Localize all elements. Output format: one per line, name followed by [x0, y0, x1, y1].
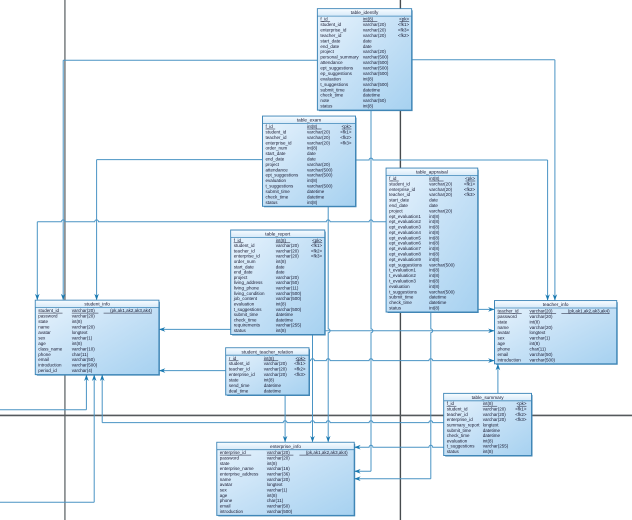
svg-text:email: email: [220, 504, 231, 509]
svg-text:datetime: datetime: [276, 317, 294, 322]
svg-text:phone: phone: [498, 347, 511, 352]
wire dark vertical line x=400 (clipped reference link): [399, 0, 401, 520]
svg-text:end_date: end_date: [234, 270, 253, 275]
svg-text:datetime: datetime: [429, 300, 447, 305]
arrowhead into student_info right from student_teacher_relation: [159, 368, 165, 373]
svg-text:varchar(20): varchar(20): [307, 129, 331, 134]
svg-text:t_evaluation2: t_evaluation2: [389, 273, 416, 278]
svg-text:end_date: end_date: [389, 203, 408, 208]
svg-text:int(8): int(8): [429, 306, 440, 311]
wire dark gray vertical line x=65 (clipped reference link): [64, 0, 66, 520]
svg-text:varchar(20): varchar(20): [363, 33, 387, 38]
svg-text:(pk,ak1,ak2,ak3,ak4): (pk,ak1,ak2,ak3,ak4): [110, 308, 152, 313]
svg-text:start_date: start_date: [389, 198, 410, 203]
svg-text:date: date: [276, 270, 285, 275]
svg-text:varchar(20): varchar(20): [307, 140, 331, 145]
svg-text:int(8): int(8): [276, 302, 287, 307]
svg-text:password: password: [220, 456, 240, 461]
wire table_appraisal to teacher_info: [478, 308, 494, 310]
svg-text:<fk1>: <fk1>: [464, 181, 476, 186]
svg-text:varchar(50): varchar(50): [72, 357, 96, 362]
svg-text:submit_time: submit_time: [389, 295, 414, 300]
svg-text:varchar(50): varchar(50): [530, 352, 554, 357]
svg-text:varchar(500): varchar(500): [363, 71, 389, 76]
svg-text:<fk3>: <fk3>: [340, 140, 352, 145]
svg-text:varchar(500): varchar(500): [429, 262, 455, 267]
svg-text:varchar(20): varchar(20): [483, 412, 507, 417]
table table_exam: [263, 116, 357, 207]
svg-text:varchar(20): varchar(20): [530, 314, 554, 319]
svg-text:varchar(50): varchar(50): [267, 504, 291, 509]
svg-text:int(8): int(8): [307, 124, 318, 129]
arrowhead into teacher_info left from table_report: [488, 329, 494, 334]
svg-text:int(8): int(8): [429, 252, 440, 257]
wire table_report to enterprise_info: [312, 335, 314, 442]
svg-text:avatar: avatar: [38, 330, 51, 335]
svg-text:datetime: datetime: [429, 295, 447, 300]
svg-text:<pk>: <pk>: [341, 124, 351, 129]
svg-text:int(8): int(8): [264, 356, 275, 361]
arrowhead into student_info top from table_identify: [61, 294, 66, 300]
wire table_report to student_info: [159, 328, 230, 330]
table enterprise_info: [217, 442, 355, 516]
svg-text:student_id: student_id: [266, 129, 287, 134]
svg-text:datetime: datetime: [276, 312, 294, 317]
svg-text:int(8): int(8): [429, 257, 440, 262]
svg-text:datetime: datetime: [363, 87, 381, 92]
svg-text:datetime: datetime: [307, 194, 325, 199]
table table_appraisal: [386, 168, 478, 312]
svg-text:student_id: student_id: [447, 407, 468, 412]
svg-text:order_num: order_num: [266, 146, 288, 151]
svg-text:<fk1>: <fk1>: [311, 243, 323, 248]
svg-text:int(8): int(8): [72, 319, 83, 324]
svg-text:start_date: start_date: [234, 264, 255, 269]
svg-text:check_time: check_time: [266, 194, 289, 199]
svg-text:<fk1>: <fk1>: [340, 129, 352, 134]
svg-text:project: project: [266, 162, 280, 167]
svg-text:f_id: f_id: [389, 176, 397, 181]
svg-text:f_id: f_id: [447, 401, 455, 406]
svg-text:introduction: introduction: [220, 509, 244, 514]
svg-text:<fk1>: <fk1>: [294, 361, 306, 366]
svg-text:<fk2>: <fk2>: [294, 367, 306, 372]
svg-text:ept_evaluation4: ept_evaluation4: [389, 230, 421, 235]
svg-text:submit_time: submit_time: [447, 428, 472, 433]
svg-text:varchar(500): varchar(500): [307, 167, 333, 172]
svg-text:enterprise_id: enterprise_id: [389, 187, 416, 192]
svg-text:<fk2>: <fk2>: [398, 33, 410, 38]
svg-text:student_id: student_id: [38, 308, 59, 313]
svg-text:<fk3>: <fk3>: [398, 28, 410, 33]
svg-text:varchar(20): varchar(20): [264, 361, 288, 366]
svg-text:evaluation: evaluation: [320, 76, 341, 81]
svg-text:datetime: datetime: [264, 383, 282, 388]
svg-text:<fk1>: <fk1>: [515, 407, 527, 412]
svg-text:<pk>: <pk>: [465, 176, 475, 181]
wire student_teacher_relation to student_info: [159, 370, 225, 372]
svg-text:email: email: [498, 352, 509, 357]
svg-text:int(8): int(8): [429, 246, 440, 251]
svg-text:state: state: [220, 461, 230, 466]
svg-text:table_identify: table_identify: [351, 10, 379, 15]
svg-text:project: project: [234, 275, 248, 280]
svg-text:varchar(1): varchar(1): [267, 488, 288, 493]
arrowhead into enterprise_info right from table_appraisal: [354, 476, 360, 481]
svg-text:check_time: check_time: [320, 93, 343, 98]
svg-text:varchar(20): varchar(20): [307, 135, 331, 140]
wire table_exam to enterprise_info: [328, 206, 330, 441]
svg-text:ept_evaluation7: ept_evaluation7: [389, 246, 421, 251]
svg-text:int(8): int(8): [264, 378, 275, 383]
svg-text:f_id: f_id: [234, 238, 242, 243]
svg-text:varchar(20): varchar(20): [483, 407, 507, 412]
svg-text:check_time: check_time: [234, 317, 257, 322]
arrowhead into enterprise_info top from table_exam: [326, 436, 331, 442]
svg-text:date: date: [429, 198, 438, 203]
svg-text:sex: sex: [220, 488, 228, 493]
svg-text:introduction: introduction: [498, 357, 522, 362]
svg-text:sex: sex: [38, 335, 46, 340]
svg-text:varchar(255): varchar(255): [276, 323, 302, 328]
svg-text:status: status: [447, 449, 460, 454]
svg-text:<pk>: <pk>: [295, 356, 305, 361]
svg-text:<fk3>: <fk3>: [311, 254, 323, 259]
svg-text:enterprise_address: enterprise_address: [220, 472, 259, 477]
svg-text:teacher_id: teacher_id: [498, 309, 520, 314]
svg-text:int(8): int(8): [429, 284, 440, 289]
wire table_summary to enterprise_info: [355, 445, 444, 447]
svg-text:varchar(500): varchar(500): [276, 296, 302, 301]
svg-text:date: date: [363, 44, 372, 49]
arrowhead into teacher_info left from student_teacher_relation: [488, 358, 494, 363]
svg-text:teacher_id: teacher_id: [234, 248, 256, 253]
svg-text:varchar(500): varchar(500): [363, 82, 389, 87]
svg-text:varchar(20): varchar(20): [363, 49, 387, 54]
svg-text:ept_evaluation3: ept_evaluation3: [389, 225, 421, 230]
svg-text:int(8): int(8): [363, 104, 374, 109]
svg-text:int(8): int(8): [72, 341, 83, 346]
svg-text:<fk3>: <fk3>: [464, 192, 476, 197]
svg-text:int(8): int(8): [429, 214, 440, 219]
svg-text:living_phone: living_phone: [234, 286, 260, 291]
wire table_identify to student_info: [63, 60, 317, 299]
svg-text:varchar(20): varchar(20): [276, 243, 300, 248]
svg-text:varchar(10): varchar(10): [72, 346, 96, 351]
svg-text:attendance: attendance: [320, 60, 343, 65]
svg-text:r_id: r_id: [229, 356, 237, 361]
svg-text:varchar(4): varchar(4): [72, 368, 93, 373]
svg-text:end_date: end_date: [320, 44, 339, 49]
svg-text:varchar(20): varchar(20): [483, 417, 507, 422]
svg-text:enterprise_id: enterprise_id: [234, 254, 261, 259]
svg-text:<fk3>: <fk3>: [294, 372, 306, 377]
svg-text:varchar(500): varchar(500): [530, 357, 556, 362]
svg-text:(pk,ak1,ak2,ak3,ak4): (pk,ak1,ak2,ak3,ak4): [568, 309, 610, 314]
svg-text:ep_suggestions: ep_suggestions: [320, 71, 352, 76]
svg-text:int(8): int(8): [429, 235, 440, 240]
svg-text:int(8): int(8): [429, 273, 440, 278]
svg-text:varchar(20): varchar(20): [429, 181, 453, 186]
svg-text:teacher_id: teacher_id: [447, 412, 469, 417]
svg-text:<pk>: <pk>: [516, 401, 526, 406]
arrowhead into enterprise_info right from table_summary: [354, 445, 360, 450]
svg-text:varchar(1): varchar(1): [530, 336, 551, 341]
arrowhead into student_info top from table_appraisal: [35, 294, 40, 300]
svg-text:int(8): int(8): [429, 219, 440, 224]
svg-text:<pk>: <pk>: [312, 238, 322, 243]
svg-text:table_summary: table_summary: [472, 395, 505, 400]
svg-text:evaluation: evaluation: [266, 178, 287, 183]
svg-text:int(8): int(8): [429, 225, 440, 230]
svg-text:ept_suggestions: ept_suggestions: [266, 173, 300, 178]
arrowhead into student_info right from table_report: [159, 327, 165, 332]
svg-text:ept_evaluation5: ept_evaluation5: [389, 235, 421, 240]
svg-text:ept_evaluation1: ept_evaluation1: [389, 214, 421, 219]
arrowhead into student_info bottom from table_summary: [100, 375, 105, 381]
svg-text:ept_suggestions: ept_suggestions: [389, 262, 423, 267]
svg-text:date: date: [363, 38, 372, 43]
svg-text:int(8): int(8): [267, 461, 278, 466]
svg-text:class_name: class_name: [38, 346, 63, 351]
svg-text:<fk2>: <fk2>: [311, 248, 323, 253]
svg-text:f_id: f_id: [320, 17, 328, 22]
wire table_exam to student_info: [97, 160, 263, 300]
svg-text:status: status: [320, 104, 333, 109]
svg-text:submit_time: submit_time: [234, 312, 259, 317]
svg-text:int(8): int(8): [483, 401, 494, 406]
svg-text:varchar(20): varchar(20): [363, 22, 387, 27]
wire clipped link to student_info bottom 2: [0, 375, 94, 502]
wire table_report to teacher_info: [325, 330, 494, 332]
svg-text:student_id: student_id: [320, 22, 341, 27]
svg-text:project: project: [320, 49, 334, 54]
svg-text:date: date: [307, 151, 316, 156]
svg-text:<pk>: <pk>: [399, 17, 409, 22]
arrowhead into teacher_info left from table_appraisal: [488, 307, 494, 312]
svg-text:submit_time: submit_time: [266, 189, 291, 194]
svg-text:int(8): int(8): [429, 230, 440, 235]
svg-text:<fk2>: <fk2>: [515, 412, 527, 417]
svg-text:varchar(20): varchar(20): [276, 248, 300, 253]
svg-text:check_time: check_time: [389, 300, 412, 305]
svg-text:evaluation: evaluation: [447, 438, 468, 443]
svg-text:table_exam: table_exam: [297, 118, 321, 123]
svg-text:teacher_id: teacher_id: [229, 367, 251, 372]
svg-text:int(8): int(8): [276, 259, 287, 264]
arrowhead into enterprise_info right from table_identify: [354, 469, 360, 474]
svg-text:teacher_info: teacher_info: [543, 302, 569, 307]
svg-text:t_suggestions: t_suggestions: [320, 82, 349, 87]
svg-text:int(8): int(8): [307, 200, 318, 205]
svg-text:varchar(20): varchar(20): [264, 372, 288, 377]
svg-text:varchar(20): varchar(20): [267, 477, 291, 482]
svg-text:end_date: end_date: [266, 157, 285, 162]
svg-text:varchar(20): varchar(20): [429, 187, 453, 192]
svg-text:phone: phone: [38, 352, 51, 357]
svg-text:varchar(500): varchar(500): [363, 55, 389, 60]
svg-text:table_appraisal: table_appraisal: [416, 170, 448, 175]
svg-text:varchar(500): varchar(500): [267, 509, 293, 514]
wire student_teacher_relation to enterprise_info: [284, 395, 286, 442]
svg-text:int(8): int(8): [530, 319, 541, 324]
wire table_summary to teacher_info: [497, 364, 499, 393]
svg-text:varchar(500): varchar(500): [276, 307, 302, 312]
svg-text:datetime: datetime: [307, 189, 325, 194]
arrowhead into teacher_info bottom from table_summary: [496, 364, 501, 370]
svg-text:enterprise_id: enterprise_id: [229, 372, 256, 377]
svg-text:date: date: [276, 264, 285, 269]
svg-text:datetime: datetime: [483, 433, 501, 438]
svg-text:project: project: [389, 208, 403, 213]
svg-text:ept_evaluation2: ept_evaluation2: [389, 219, 421, 224]
svg-text:personal_summary: personal_summary: [320, 55, 359, 60]
svg-text:ept_evaluation8: ept_evaluation8: [389, 252, 421, 257]
svg-text:char(11): char(11): [267, 498, 284, 503]
svg-text:<fk2>: <fk2>: [340, 135, 352, 140]
wire student_teacher_relation to teacher_info: [309, 359, 494, 361]
svg-text:varchar(500): varchar(500): [429, 289, 455, 294]
svg-text:longtext: longtext: [483, 422, 500, 427]
wire clipped link to student_info bottom 1: [0, 375, 86, 410]
svg-text:ept_evaluation9: ept_evaluation9: [389, 257, 421, 262]
svg-text:varchar(20): varchar(20): [276, 275, 300, 280]
svg-text:<fk1>: <fk1>: [398, 22, 410, 27]
svg-text:student_teacher_relation: student_teacher_relation: [241, 349, 293, 354]
svg-text:t_suggestions: t_suggestions: [447, 444, 476, 449]
svg-text:varchar(36): varchar(36): [267, 472, 291, 477]
svg-text:varchar(20): varchar(20): [530, 325, 554, 330]
svg-text:<fk2>: <fk2>: [464, 187, 476, 192]
svg-text:datetime: datetime: [264, 389, 282, 394]
arrowhead into enterprise_info top from table_report: [310, 436, 315, 442]
svg-text:int(8): int(8): [276, 238, 287, 243]
svg-text:varchar(11): varchar(11): [276, 286, 299, 291]
svg-text:age: age: [220, 493, 228, 498]
table teacher_info: [495, 301, 618, 365]
svg-text:name: name: [38, 325, 50, 330]
arrowhead into student_info top from table_exam: [94, 294, 99, 300]
svg-text:varchar(20): varchar(20): [267, 450, 291, 455]
svg-text:deal_time: deal_time: [229, 389, 249, 394]
svg-text:int(8): int(8): [530, 341, 541, 346]
svg-text:(pk,ak1,ak2,ak3,ak4): (pk,ak1,ak2,ak3,ak4): [306, 450, 348, 455]
svg-text:enterprise_id: enterprise_id: [266, 140, 293, 145]
svg-text:password: password: [498, 314, 518, 319]
svg-text:varchar(20): varchar(20): [276, 254, 300, 259]
svg-text:status: status: [389, 306, 402, 311]
svg-text:student_id: student_id: [389, 181, 410, 186]
svg-text:varchar(20): varchar(20): [72, 308, 96, 313]
wire table_identify to enterprise_info: [355, 110, 373, 471]
svg-text:varchar(20): varchar(20): [363, 28, 387, 33]
svg-text:student_id: student_id: [229, 361, 250, 366]
svg-text:int(8): int(8): [429, 268, 440, 273]
svg-text:living_address: living_address: [234, 280, 264, 285]
svg-text:start_date: start_date: [320, 38, 341, 43]
svg-text:phone: phone: [220, 498, 233, 503]
svg-text:enterprise_id: enterprise_id: [220, 450, 247, 455]
svg-text:char(11): char(11): [530, 347, 547, 352]
svg-text:t_evaluation1: t_evaluation1: [389, 268, 416, 273]
svg-text:varchar(500): varchar(500): [72, 363, 98, 368]
svg-text:varchar(500): varchar(500): [276, 291, 302, 296]
svg-text:email: email: [38, 357, 49, 362]
svg-text:int(8): int(8): [483, 438, 494, 443]
svg-text:varchar(50): varchar(50): [363, 98, 387, 103]
svg-text:varchar(500): varchar(500): [363, 60, 389, 65]
svg-text:name: name: [498, 325, 510, 330]
svg-text:varchar(255): varchar(255): [483, 444, 509, 449]
svg-text:int(8): int(8): [267, 493, 278, 498]
svg-text:period_id: period_id: [38, 368, 57, 373]
svg-text:varchar(1): varchar(1): [72, 335, 93, 340]
svg-text:enterprise_info: enterprise_info: [270, 444, 301, 449]
svg-text:send_time: send_time: [229, 383, 250, 388]
svg-text:int(8): int(8): [363, 76, 374, 81]
svg-text:int(8): int(8): [429, 176, 440, 181]
svg-text:attendance: attendance: [266, 167, 289, 172]
svg-text:state: state: [38, 319, 48, 324]
svg-text:varchar(20): varchar(20): [429, 192, 453, 197]
table table_identify: [317, 9, 412, 111]
svg-text:avatar: avatar: [498, 330, 511, 335]
svg-text:order_num: order_num: [234, 259, 256, 264]
svg-text:f_id: f_id: [266, 124, 274, 129]
svg-text:enterprise_id: enterprise_id: [320, 28, 347, 33]
svg-text:t_evaluation3: t_evaluation3: [389, 279, 416, 284]
svg-text:age: age: [498, 341, 506, 346]
arrowhead into teacher_info top from table_exam: [545, 294, 550, 300]
svg-text:ept_evaluation6: ept_evaluation6: [389, 241, 421, 246]
svg-text:varchar(20): varchar(20): [72, 325, 96, 330]
arrowhead into student_info bottom left: [84, 375, 89, 381]
svg-text:varchar(500): varchar(500): [363, 66, 389, 71]
svg-text:ept_suggestions: ept_suggestions: [320, 66, 354, 71]
svg-text:varchar(20): varchar(20): [267, 456, 291, 461]
arrowhead into enterprise_info top from student_teacher_relation: [283, 436, 288, 442]
svg-text:introduction: introduction: [38, 363, 62, 368]
svg-text:longtext: longtext: [267, 482, 284, 487]
table student_info: [35, 300, 159, 375]
wire table_exam to teacher_info: [356, 158, 548, 300]
svg-text:<fk3>: <fk3>: [515, 417, 527, 422]
svg-text:date: date: [429, 203, 438, 208]
svg-text:int(8): int(8): [307, 146, 318, 151]
svg-text:job_content: job_content: [233, 296, 258, 301]
svg-text:enterprise_id: enterprise_id: [447, 417, 474, 422]
svg-text:state: state: [229, 378, 239, 383]
svg-text:student_id: student_id: [234, 243, 255, 248]
table table_summary: [444, 393, 532, 456]
svg-text:state: state: [498, 319, 508, 324]
svg-text:note: note: [320, 98, 329, 103]
arrowhead into teacher_info top from table_identify: [553, 294, 558, 300]
svg-text:status: status: [266, 200, 279, 205]
svg-text:int(8): int(8): [483, 449, 494, 454]
svg-text:varchar(50): varchar(50): [276, 280, 300, 285]
svg-text:varchar(500): varchar(500): [307, 173, 333, 178]
svg-text:teacher_id: teacher_id: [389, 192, 411, 197]
svg-text:avatar: avatar: [220, 482, 233, 487]
svg-text:varchar(20): varchar(20): [264, 367, 288, 372]
svg-text:living_condition: living_condition: [234, 291, 265, 296]
svg-text:int(8): int(8): [276, 328, 287, 333]
svg-text:t_suggestions: t_suggestions: [389, 289, 418, 294]
svg-text:start_date: start_date: [266, 151, 287, 156]
svg-text:int(8): int(8): [307, 178, 318, 183]
svg-text:evaluation: evaluation: [389, 284, 410, 289]
